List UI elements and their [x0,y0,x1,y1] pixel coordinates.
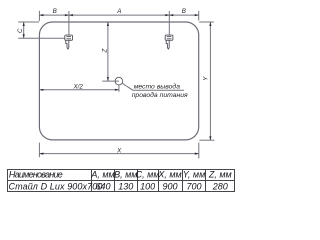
svg-text:130: 130 [118,181,133,191]
table column separator A/B [114,170,116,192]
extension line Y bottom [199,139,214,141]
table text [9,170,232,192]
arrowhead B left at left edge [39,14,43,16]
svg-text:C: C [17,28,24,33]
dim line B left [39,14,69,16]
table row separator [8,180,235,182]
hook bracket right [165,35,173,49]
extension line Y top [199,21,214,23]
arrowhead C top [23,22,25,26]
svg-text:A: A [116,8,121,15]
svg-text:место вывода: место вывода [134,83,181,91]
dim line Y [209,22,211,140]
extension line circle level [102,80,119,82]
leader line power outlet [122,83,184,90]
arrowhead B left at hook [65,14,69,16]
leader note text [132,83,188,99]
arrowhead X/2 left [39,89,43,91]
dim line A [69,14,169,16]
arrowhead X/2 right [115,89,119,91]
svg-text:Стайл D Lux 900х700: Стайл D Lux 900х700 [9,181,103,191]
hook bracket left [65,35,73,49]
arrowhead C bottom [23,34,25,38]
svg-text:Z: Z [101,48,108,53]
svg-text:X: X [116,148,122,155]
table outer border [8,170,235,192]
arrowhead B right at hook [169,14,173,16]
extension line X left [38,143,40,158]
svg-text:Z, мм: Z, мм [208,170,232,180]
dim line B right [169,14,198,16]
extension line C top [18,21,39,23]
arrowhead X left [39,153,43,155]
svg-text:A, мм: A, мм [90,170,114,180]
dimension labels [17,8,209,154]
extension line right hook [168,11,170,35]
svg-text:640: 640 [95,181,110,191]
svg-text:Наименование: Наименование [9,170,63,180]
power outlet circle [115,77,123,85]
extension line X right [198,143,200,159]
svg-text:B, мм: B, мм [114,170,137,180]
arrowhead A right [165,14,169,16]
arrowhead Z bottom [107,77,109,81]
svg-text:100: 100 [140,181,155,191]
table column separator C/X [158,170,160,192]
mirror outline [39,22,198,140]
svg-text:X/2: X/2 [73,83,84,90]
extension line below circle [118,85,120,92]
svg-text:Y, мм: Y, мм [183,170,206,180]
table column separator Y/Z [205,170,207,192]
arrowhead X right [195,153,199,155]
dim line X [39,153,198,155]
svg-text:B: B [182,8,186,15]
dim line X/2 [39,89,119,91]
arrowhead Y bottom [209,136,211,140]
arrowhead Z top [107,22,109,26]
extension line left edge top [38,11,40,21]
table column separator B/C [137,170,139,192]
extension line right edge top [198,11,200,20]
dim line C [23,22,25,38]
svg-text:X, мм: X, мм [157,170,181,180]
arrowhead B right at edge [195,14,199,16]
dim line Z [107,22,109,81]
svg-text:700: 700 [186,181,201,191]
svg-text:B: B [53,8,57,15]
svg-text:провода питания: провода питания [132,91,188,99]
arrowhead Y top [209,22,211,26]
table column separator name/A [91,170,93,192]
extension line left hook [68,11,70,35]
svg-text:900: 900 [162,181,177,191]
table column separator X/Y [182,170,184,192]
extension line C bottom hook level [18,37,64,39]
arrowhead A left [69,14,73,16]
svg-text:280: 280 [212,181,228,191]
svg-text:C, мм: C, мм [136,170,160,180]
